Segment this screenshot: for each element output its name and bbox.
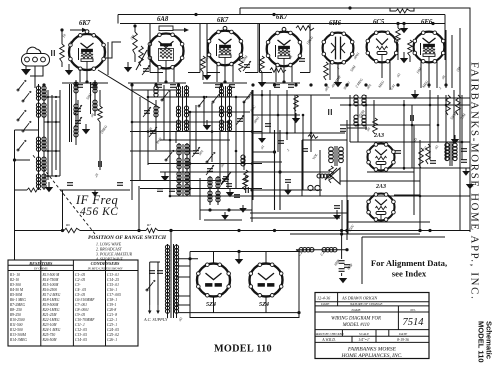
svg-text:6K7: 6K7 xyxy=(217,17,229,24)
capacitor line filter xyxy=(149,271,163,274)
wire IF zone left border xyxy=(62,190,64,231)
wire IFT3 frame xyxy=(199,178,201,220)
resistor R9 grid 6F6 xyxy=(408,40,413,62)
junction xyxy=(169,195,172,198)
junction T1 xyxy=(85,80,88,83)
tube V1 6K7 xyxy=(69,20,106,70)
capacitor C51 xyxy=(234,195,240,198)
wire T2 pins xyxy=(165,69,167,83)
ground T5 xyxy=(334,78,342,87)
wire T1 grid diagonal xyxy=(98,70,160,108)
svg-text:5Z4: 5Z4 xyxy=(259,301,269,308)
switch S1c band xyxy=(17,110,26,121)
junction xyxy=(277,114,280,117)
shield box tube V2 xyxy=(150,24,200,73)
svg-text:C4- .05: C4- .05 xyxy=(75,288,86,292)
ground T3 xyxy=(203,72,211,80)
wire T4 pins xyxy=(283,67,285,83)
wire AF node horizontal xyxy=(240,171,330,173)
wire xyxy=(175,131,177,143)
tube V11 5Z4 xyxy=(249,263,283,308)
wire xyxy=(131,85,133,200)
junction xyxy=(461,141,464,144)
svg-text:R6-1 MEG: R6-1 MEG xyxy=(9,298,26,302)
wire above IF text xyxy=(60,189,130,191)
coil core lines RF xyxy=(70,82,226,196)
junction xyxy=(419,195,422,198)
antenna terminal board xyxy=(22,54,50,67)
svg-text:C21- 8: C21- 8 xyxy=(107,313,117,317)
junction rect xyxy=(237,250,240,253)
junction xyxy=(131,121,134,124)
wire xyxy=(148,163,262,165)
wire xyxy=(235,97,237,188)
junction xyxy=(302,114,305,117)
inductor L12 RF coil column xyxy=(74,80,78,145)
switch S2d xyxy=(243,92,252,103)
inductor L9 interstage transformer xyxy=(445,142,457,166)
wire xyxy=(190,111,250,113)
svg-text:AS DRAWN ORIGIN: AS DRAWN ORIGIN xyxy=(341,296,377,301)
svg-text:R12-500: R12-500 xyxy=(9,328,23,332)
wire alignment area top xyxy=(362,236,445,238)
capacitor C58 xyxy=(334,206,340,209)
svg-text:NAME: NAME xyxy=(350,308,361,312)
ground right 4 xyxy=(466,180,474,189)
capacitor C5 xyxy=(99,161,102,167)
svg-text:6A8: 6A8 xyxy=(157,16,169,23)
filter choke L10 xyxy=(299,248,314,252)
capacitor C52 xyxy=(246,187,249,193)
switch S2f xyxy=(206,152,215,163)
svg-text:IN MFD UNLESS SHOWN: IN MFD UNLESS SHOWN xyxy=(87,267,124,271)
svg-text:R5-50M: R5-50M xyxy=(9,293,23,297)
wire rectifier loop xyxy=(190,252,299,318)
junction xyxy=(227,121,230,124)
wire under-tube row xyxy=(62,82,108,84)
capacitor C37 bypass xyxy=(288,85,294,88)
wire AC leads xyxy=(149,262,151,305)
svg-text:DRAWN BY CHECKED: DRAWN BY CHECKED xyxy=(313,332,344,336)
svg-text:456 KC: 456 KC xyxy=(80,206,118,218)
capacitor C9 trimmer xyxy=(206,165,214,175)
svg-text:NO.: NO. xyxy=(409,308,416,312)
svg-text:6K7: 6K7 xyxy=(276,14,288,21)
svg-text:C2-.05: C2-.05 xyxy=(75,278,85,282)
junction xyxy=(251,130,254,133)
junction xyxy=(169,139,172,142)
wire audio coupling lines xyxy=(250,162,347,218)
switch S2c xyxy=(212,92,221,103)
svg-text:NATURE OF CHANGE: NATURE OF CHANGE xyxy=(349,302,383,306)
junction xyxy=(147,96,150,99)
capacitor C30 bypass xyxy=(77,85,83,88)
wire stage box top rail xyxy=(120,23,445,25)
output transformer T3 xyxy=(329,146,344,166)
wire xyxy=(155,100,157,150)
tube V10 5Z4 xyxy=(197,263,231,308)
resistor R7 diode load xyxy=(324,62,329,80)
junction xyxy=(310,132,313,135)
svg-text:C17-.005: C17-.005 xyxy=(107,293,121,297)
svg-text:5Z4: 5Z4 xyxy=(206,301,216,308)
ground osc 2 xyxy=(226,188,234,197)
wire T1 grid cap arrow xyxy=(70,28,87,32)
speaker xyxy=(317,168,340,184)
capacitor C54 xyxy=(117,183,123,186)
svg-text:R3-300: R3-300 xyxy=(9,283,21,287)
inductor L13 RF coil column xyxy=(93,80,97,116)
svg-text:R14-1MEG: R14-1MEG xyxy=(9,338,27,342)
svg-text:C12-.05: C12-.05 xyxy=(75,328,87,332)
wire xyxy=(163,85,165,140)
resistor R1 cathode xyxy=(60,30,65,67)
ground antenna xyxy=(21,66,31,75)
junction T2 xyxy=(164,80,167,83)
wire AF twin verticals xyxy=(275,130,281,210)
resistor R5 xyxy=(239,56,244,72)
junction IFT3 xyxy=(208,208,211,211)
resistor R24 horizontal xyxy=(146,228,165,232)
wire rect outputs xyxy=(213,252,215,264)
capacitor C2 trimmer xyxy=(243,61,251,71)
resistor R19 bias xyxy=(419,148,424,168)
wire xyxy=(130,131,262,133)
svg-text:A.W.R.D.: A.W.R.D. xyxy=(321,338,336,342)
svg-text:C16-.1: C16-.1 xyxy=(107,288,117,292)
wire choke bus xyxy=(296,249,347,251)
resistor R11 osc xyxy=(244,170,249,186)
ground between T6 T7 lower xyxy=(400,52,408,63)
wire antenna right lead xyxy=(30,66,43,76)
svg-text:MODEL 110: MODEL 110 xyxy=(477,321,486,363)
svg-text:MODEL #110: MODEL #110 xyxy=(342,323,370,328)
svg-text:C15-.01: C15-.01 xyxy=(107,283,119,287)
svg-text:6C5: 6C5 xyxy=(373,19,385,26)
wire grid cap arrow 6A8 xyxy=(173,28,189,32)
svg-text:1/4"=1': 1/4"=1' xyxy=(358,338,370,342)
tube V9 2A3 xyxy=(367,184,395,221)
junction xyxy=(219,179,222,182)
wire IF zone right border xyxy=(138,186,140,231)
svg-text:R8- 250: R8- 250 xyxy=(9,308,22,312)
capacitor C4 trimmer ladder xyxy=(74,100,82,130)
tube V6 6C5 xyxy=(366,19,398,63)
resistor R21 top xyxy=(390,8,414,13)
wire xyxy=(219,131,221,180)
capacitor C20 xyxy=(430,161,436,164)
svg-text:SCALE: SCALE xyxy=(359,332,370,336)
wire filter caps xyxy=(341,234,343,259)
ground RF lower xyxy=(45,182,53,192)
wire y196 mid segment xyxy=(262,195,340,197)
ground C57 xyxy=(284,184,292,195)
wire left rail horiz xyxy=(15,129,39,131)
junction xyxy=(403,104,406,107)
svg-text:R25-750: R25-750 xyxy=(42,333,56,337)
wire top bus drop x240 xyxy=(239,8,241,15)
tube V3 6K7 xyxy=(207,17,242,66)
wire xyxy=(148,96,250,98)
wire xyxy=(140,188,262,190)
capacitor C6 trimmer xyxy=(143,107,151,117)
junction bottom bus xyxy=(345,229,348,232)
svg-text:DATE: DATE xyxy=(320,302,330,306)
capacitor C7 trimmer xyxy=(149,127,157,137)
svg-text:R17-2 MEG: R17-2 MEG xyxy=(42,293,61,297)
wire xyxy=(160,171,240,173)
junction xyxy=(453,141,456,144)
wire rectifier inner xyxy=(178,258,198,260)
svg-text:For Alignment Data,: For Alignment Data, xyxy=(371,258,447,268)
ground IFT3 a xyxy=(239,205,247,213)
parts value table xyxy=(8,260,138,346)
svg-text:C26-.1: C26-.1 xyxy=(107,338,117,342)
capacitor C33 bypass xyxy=(170,85,176,88)
junction xyxy=(357,124,360,127)
resistor R25 xyxy=(243,176,248,190)
junction xyxy=(429,104,432,107)
capacitor C14 xyxy=(265,124,271,127)
svg-text:6K7: 6K7 xyxy=(79,20,91,27)
label For Alignment Data xyxy=(371,258,447,279)
svg-text:2A3: 2A3 xyxy=(373,133,384,139)
resistor R12 xyxy=(446,95,451,115)
svg-text:R13-500 M: R13-500 M xyxy=(42,273,61,277)
capacitor C1 trimmer xyxy=(142,65,150,75)
svg-text:C6-310MMF: C6-310MMF xyxy=(75,298,95,302)
svg-text:IF Freq: IF Freq xyxy=(75,193,118,207)
capacitor C36 bypass xyxy=(274,85,280,88)
AC supply arrows xyxy=(148,305,160,314)
capacitor C32 bypass xyxy=(156,85,162,88)
inductor L15 small choke xyxy=(241,155,245,166)
wire T3 pins xyxy=(224,66,226,83)
svg-text:R7-2MEG: R7-2MEG xyxy=(9,303,25,307)
svg-text:R10-2500: R10-2500 xyxy=(9,318,25,322)
ground IFT3 b xyxy=(221,212,229,220)
resistor R6 xyxy=(260,56,265,80)
svg-text:C9-.05: C9-.05 xyxy=(75,313,85,317)
junction top bus xyxy=(194,13,197,16)
junction xyxy=(235,150,238,153)
svg-text:MODEL 110: MODEL 110 xyxy=(214,344,272,355)
svg-text:2A3: 2A3 xyxy=(375,184,386,190)
capacitor C57 xyxy=(285,180,291,183)
IF transformer T5 coils xyxy=(208,176,220,205)
svg-text:C1-.05: C1-.05 xyxy=(75,273,85,277)
svg-text:DATE: DATE xyxy=(398,332,408,336)
wire xyxy=(130,89,176,91)
ground T2 xyxy=(124,62,132,72)
wire xyxy=(189,112,191,196)
svg-text:C19-1: C19-1 xyxy=(107,303,116,307)
resistor R22 xyxy=(426,144,431,164)
svg-text:R6: R6 xyxy=(65,223,70,227)
ground IF area xyxy=(92,190,99,196)
wire xyxy=(203,97,205,125)
potentiometer R18 volume xyxy=(325,166,337,183)
svg-text:12-4-36: 12-4-36 xyxy=(317,296,331,301)
junction xyxy=(235,96,238,99)
wire choke drop verticals xyxy=(341,200,343,234)
svg-text:FAIRBANKS-MORSE HOME APP., INC: FAIRBANKS-MORSE HOME APP., INC. xyxy=(469,62,481,300)
capacitor C11 trimmer xyxy=(236,115,244,125)
resistor R13 xyxy=(456,95,461,115)
wire T7 pins xyxy=(428,63,430,89)
ground C58 xyxy=(333,210,341,220)
capacitor filter bank xyxy=(339,261,350,272)
capacitor C19 xyxy=(395,151,401,154)
junction dots AVC bus xyxy=(42,83,447,86)
junction xyxy=(349,104,352,107)
svg-text:HOME APPLIANCES, INC.: HOME APPLIANCES, INC. xyxy=(341,353,403,359)
switch S2a xyxy=(161,90,170,101)
ground right 3 xyxy=(451,135,459,144)
switch S2e xyxy=(165,150,174,161)
wire top right drop xyxy=(444,15,446,61)
capacitor C53 xyxy=(67,183,73,186)
wire xyxy=(227,122,229,188)
wire coil rails left xyxy=(44,90,60,180)
junction xyxy=(211,130,214,133)
ground RF coil xyxy=(82,124,90,134)
svg-text:C24-.05: C24-.05 xyxy=(107,328,119,332)
ground right 1 xyxy=(292,113,300,123)
capacitor C8 trimmer xyxy=(192,147,200,157)
tube V2 6A8 xyxy=(148,16,184,69)
ground between rectifiers xyxy=(235,252,243,265)
junction AF xyxy=(278,170,281,173)
switch S1e band xyxy=(17,140,26,151)
capacitor C15 xyxy=(278,141,284,144)
svg-text:R24-1 MEG: R24-1 MEG xyxy=(42,328,61,332)
svg-text:R21-25M: R21-25M xyxy=(42,313,58,317)
wire antenna down xyxy=(34,66,36,88)
capacitor C16 xyxy=(302,149,308,152)
svg-text:C7-.001: C7-.001 xyxy=(75,303,87,307)
svg-text:R15-100M: R15-100M xyxy=(42,283,60,287)
junction xyxy=(286,132,289,135)
title block xyxy=(313,293,429,360)
svg-text:7514: 7514 xyxy=(403,317,425,328)
svg-text:R2-10: R2-10 xyxy=(9,278,19,282)
ground filter xyxy=(339,278,347,283)
wire xyxy=(169,90,171,196)
inductor L7 L8 padder coils xyxy=(177,143,189,196)
inductor L14 osc coil column xyxy=(154,86,158,117)
ground T1 cathode xyxy=(65,64,73,75)
svg-text:R23-10M: R23-10M xyxy=(42,323,58,327)
junction xyxy=(251,162,254,165)
ground osc 1 xyxy=(203,120,211,130)
capacitor C21 xyxy=(411,115,414,121)
shield box tube V4 xyxy=(260,24,311,73)
resistor R10 AVC xyxy=(98,90,103,170)
svg-text:R7: R7 xyxy=(146,223,151,227)
svg-text:R9-250: R9-250 xyxy=(9,313,21,317)
capacitor C10 trimmer xyxy=(221,175,229,185)
wire xyxy=(130,180,220,182)
wire xyxy=(130,150,196,152)
svg-text:8-19-36: 8-19-36 xyxy=(397,338,409,342)
resistor R16 xyxy=(270,68,286,73)
svg-text:R20-1MEG: R20-1MEG xyxy=(42,308,60,312)
junction xyxy=(203,96,206,99)
IF transformer T2 secondary coils xyxy=(354,95,366,126)
capacitor C35 bypass xyxy=(229,85,235,88)
capacitor C56 grid xyxy=(52,50,55,56)
svg-text:2. BROADCAST: 2. BROADCAST xyxy=(96,248,123,252)
svg-text:C14-.25: C14-.25 xyxy=(107,278,119,282)
junction xyxy=(189,111,192,114)
svg-text:RESISTORS: RESISTORS xyxy=(29,261,53,266)
junction xyxy=(189,162,192,165)
phono jacks xyxy=(308,185,320,190)
svg-text:R26-50M: R26-50M xyxy=(42,338,58,342)
wire B+ top bus right xyxy=(240,8,470,232)
wire top bus drop left xyxy=(117,15,119,24)
shield box tube V3 xyxy=(207,24,258,73)
wire xyxy=(243,102,245,170)
svg-text:R11-500: R11-500 xyxy=(9,323,23,327)
ground between T6 T7 upper xyxy=(400,24,408,34)
svg-text:C14-.05: C14-.05 xyxy=(75,338,87,342)
resistor R15 xyxy=(294,95,299,111)
junction xyxy=(147,130,150,133)
wire xyxy=(139,97,141,180)
junction dots bottom bus xyxy=(61,229,432,232)
svg-text:IN OHMS: IN OHMS xyxy=(33,267,48,271)
power transformer T4 xyxy=(165,244,178,318)
svg-text:C22-.1: C22-.1 xyxy=(107,318,117,322)
wire T5 pins xyxy=(337,64,339,79)
svg-text:1. LONG WAVE: 1. LONG WAVE xyxy=(96,243,122,247)
wire 2A3 right rail xyxy=(413,125,415,215)
svg-text:R4-50 M: R4-50 M xyxy=(9,288,24,292)
inductor L1 L2 antenna coil pair xyxy=(36,84,46,190)
svg-text:A.C. SUPPLY: A.C. SUPPLY xyxy=(143,317,168,322)
wire xyxy=(251,90,253,200)
svg-text:R16-2500: R16-2500 xyxy=(42,288,58,292)
wire xyxy=(147,90,149,165)
resistor R14 xyxy=(373,118,378,134)
wire alignment area left xyxy=(361,237,363,284)
wire right mid horizontals xyxy=(253,95,470,196)
inductor L5 L6 osc coil pair 2 xyxy=(219,85,231,132)
svg-text:R14-750M: R14-750M xyxy=(42,278,60,282)
junction xyxy=(365,104,368,107)
svg-text:R22-1MEG: R22-1MEG xyxy=(42,318,60,322)
junction xyxy=(403,167,406,170)
switch S1b band xyxy=(22,91,31,102)
switch S1d band xyxy=(22,121,31,132)
wire left rail xyxy=(14,130,16,260)
capacitor C31 bypass xyxy=(91,85,97,88)
wire xyxy=(132,121,228,123)
capacitor C50 xyxy=(226,184,232,187)
wire xyxy=(160,139,230,141)
svg-text:see Index: see Index xyxy=(392,269,427,279)
junction T3 xyxy=(223,80,226,83)
junction xyxy=(445,104,448,107)
wire T1 pins down xyxy=(86,70,88,82)
svg-text:C8-.0001: C8-.0001 xyxy=(75,308,89,312)
ground right stack xyxy=(462,168,470,176)
wire T1 screen rail xyxy=(107,42,109,75)
junction xyxy=(189,187,192,190)
capacitor C3 xyxy=(299,59,305,62)
